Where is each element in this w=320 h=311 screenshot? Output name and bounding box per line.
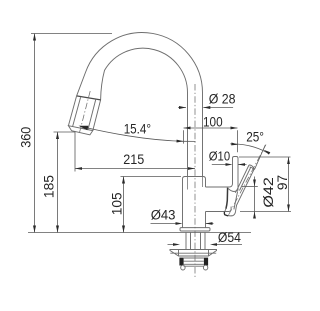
faucet body Ø43 cylinder [183, 177, 206, 228]
dim Ø43 arrow left [176, 222, 183, 225]
dim 25° extension lever axis [255, 145, 266, 170]
dim Ø28 arrow left [179, 106, 186, 109]
handle stem Ø10 and boss top edge [206, 157, 239, 190]
dim 185 line [57, 132, 59, 233]
svg-text:Ø43: Ø43 [151, 208, 176, 224]
svg-text:25°: 25° [246, 130, 264, 146]
dim 185 arrow top [56, 132, 59, 139]
dim Ø10 line [212, 164, 247, 166]
svg-text:360: 360 [18, 127, 34, 148]
spout gooseneck outer profile [77, 33, 203, 177]
dim 100 extension left [183, 130, 185, 143]
svg-text:185: 185 [41, 175, 57, 198]
spray head aerator face [68, 126, 92, 135]
dim 105 extension line top [121, 176, 182, 178]
dim Ø54 arrow left [173, 243, 180, 246]
dim 360 arrow top [33, 34, 36, 41]
dim 105 line [123, 177, 125, 233]
dim 100 line [184, 127, 238, 129]
handle lever grip beak [224, 209, 235, 216]
dim 100 arrow right [231, 127, 238, 130]
dim Ø10 arrow right [238, 163, 245, 166]
spout gooseneck inner profile [93, 48, 188, 176]
spray head inner line left [73, 97, 81, 126]
handle lever left edge [235, 165, 249, 193]
handle lever grip beak dark edge [224, 212, 228, 216]
locknut black seal left [179, 258, 183, 266]
dim 215 line [75, 168, 195, 170]
dim 100 arrow left [184, 127, 191, 130]
mounting shank inner hose [191, 233, 201, 250]
spray head left edge [68, 96, 76, 126]
dim Ø28 line [178, 107, 233, 109]
dim Ø10 arrow left [226, 163, 233, 166]
handle lever front edge seen through [234, 191, 238, 209]
dim 105 arrow bottom [122, 226, 125, 233]
svg-text:105: 105 [109, 192, 125, 215]
dim 360 line [34, 34, 36, 233]
dim Ø42 arrow bottom [253, 212, 256, 219]
locknut screw right [203, 265, 207, 270]
dim 97 line [288, 157, 290, 212]
countertop baseline [28, 232, 251, 234]
handle lever inner highlight [240, 167, 251, 191]
svg-text:97: 97 [275, 175, 291, 190]
dim 185 extension line top [54, 131, 76, 133]
mounting shank outer [186, 233, 205, 250]
dim Ø42 ref line top [242, 186, 258, 188]
svg-text:Ø10: Ø10 [209, 149, 230, 163]
dim Ø54 arrow right [210, 243, 217, 246]
dim 97 ref line top [239, 156, 291, 158]
spray head inner line right [88, 99, 96, 129]
pipe centerline [194, 84, 196, 278]
dim 360 extension line top [31, 33, 112, 35]
mounting flange [170, 250, 217, 257]
dim Ø42 arrow top [253, 180, 256, 187]
dim 105 arrow top [122, 177, 125, 184]
svg-text:Ø 28: Ø 28 [209, 92, 236, 108]
dim Ø42 line [254, 177, 256, 219]
dim 15.4° arc [80, 126, 196, 141]
base ring [180, 228, 210, 231]
faucet body right edge below boss [205, 212, 207, 228]
locknut body [184, 258, 204, 266]
handle lever top cap inner line [250, 167, 254, 170]
handle lever axis centerline [228, 145, 266, 216]
dim Ø54 line [168, 244, 243, 246]
spray head centerline [80, 91, 91, 133]
dim 215 extension line left [74, 132, 76, 172]
dim Ø28 arrow right [203, 106, 210, 109]
handle boss front ellipse arc [228, 189, 238, 192]
dim 25° arc [230, 144, 269, 154]
handle lever right edge [236, 169, 255, 212]
handle lever lower left edge [226, 188, 228, 209]
locknut black seal right [204, 258, 208, 266]
handle boss bottom edge [206, 207, 232, 212]
dim 185 arrow bottom [56, 226, 59, 233]
handle lever top cap [249, 165, 254, 169]
locknut screw left [181, 265, 185, 270]
dim 15.4° arrow right [177, 140, 184, 143]
svg-text:Ø54: Ø54 [218, 230, 241, 246]
dim Ø42 ref line bottom [240, 211, 291, 213]
pipe edges continuing into body [188, 177, 203, 190]
svg-text:215: 215 [123, 152, 144, 168]
dim 25° arrow right [264, 150, 271, 155]
svg-text:15.4°: 15.4° [124, 122, 151, 138]
dim 100 extension right [237, 130, 239, 152]
dim 25° arrow left [231, 143, 238, 146]
dim 97 arrow top [287, 157, 290, 164]
dim Ø43 arrow right [206, 222, 213, 225]
svg-text:100: 100 [203, 114, 223, 130]
dim 215 arrow left [75, 167, 82, 170]
spray head joint line [77, 96, 101, 100]
dim 97 arrow bottom [287, 205, 290, 212]
dim 15.4° arrow left [79, 126, 89, 130]
dim Ø43 line [151, 223, 214, 225]
dim 360 arrow bottom [33, 226, 36, 233]
dim 215 arrow right [188, 167, 195, 170]
